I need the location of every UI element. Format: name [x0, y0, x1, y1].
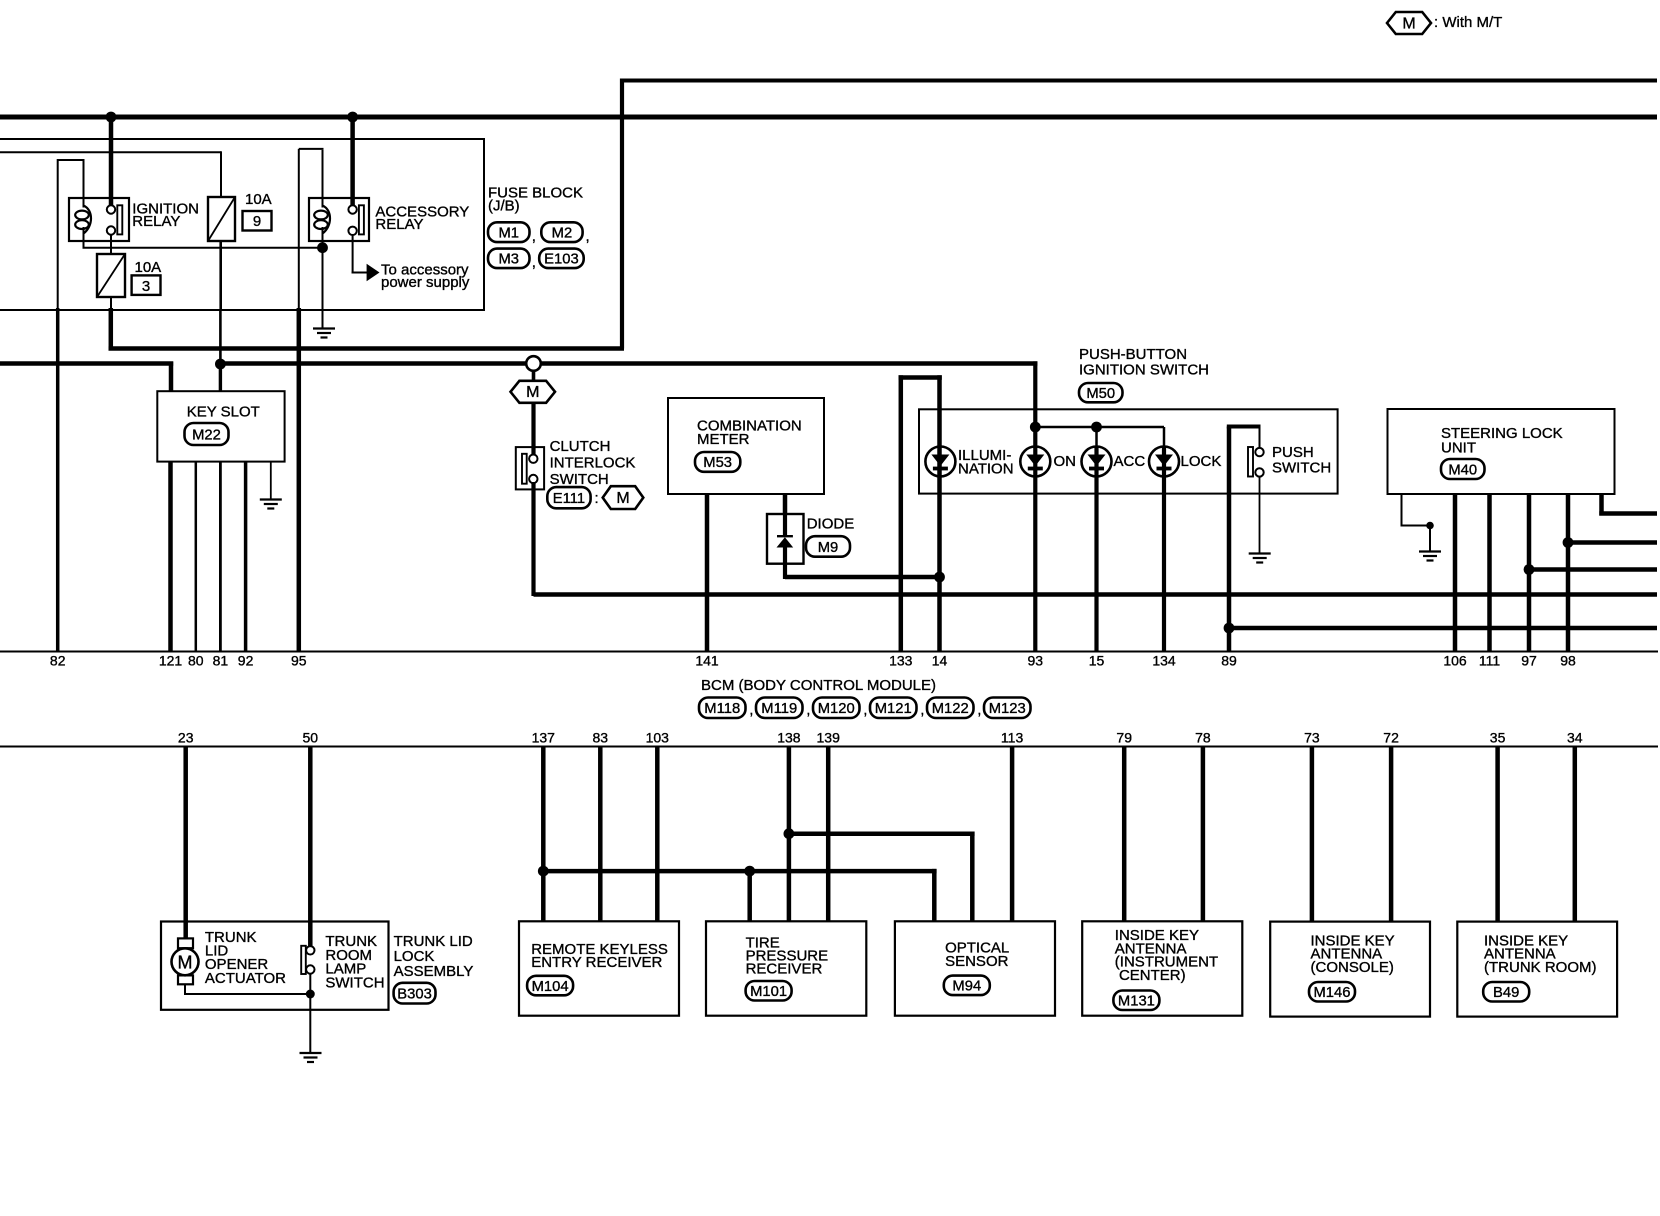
svg-text:M101: M101	[750, 984, 787, 1000]
svg-text:M104: M104	[532, 979, 569, 995]
svg-text:93: 93	[1028, 653, 1044, 669]
svg-text:78: 78	[1195, 730, 1211, 746]
svg-text:,: ,	[977, 702, 981, 719]
svg-text:BCM (BODY CONTROL MODULE): BCM (BODY CONTROL MODULE)	[701, 677, 936, 694]
svg-text:E103: E103	[544, 252, 579, 268]
svg-text:,: ,	[532, 254, 536, 271]
svg-text:113: 113	[1001, 730, 1024, 746]
svg-text:50: 50	[303, 730, 319, 746]
svg-text:15: 15	[1089, 653, 1105, 669]
svg-text:83: 83	[593, 730, 609, 746]
svg-text:141: 141	[695, 653, 719, 669]
svg-text:14: 14	[932, 653, 948, 669]
svg-text:ON: ON	[1054, 453, 1077, 470]
svg-text:: With M/T: : With M/T	[1434, 14, 1502, 31]
svg-text:9: 9	[253, 213, 261, 230]
svg-text:M3: M3	[498, 252, 519, 268]
svg-text:SWITCH: SWITCH	[1272, 459, 1331, 476]
svg-text:KEY SLOT: KEY SLOT	[187, 404, 260, 421]
svg-text:RELAY: RELAY	[132, 213, 180, 230]
svg-text:98: 98	[1560, 653, 1576, 669]
svg-text:(TRUNK ROOM): (TRUNK ROOM)	[1484, 959, 1597, 976]
svg-text:RECEIVER: RECEIVER	[746, 961, 823, 978]
svg-text::: :	[595, 490, 599, 507]
svg-text:,: ,	[586, 228, 590, 245]
svg-text:121: 121	[159, 653, 183, 669]
svg-text:SENSOR: SENSOR	[945, 953, 1009, 970]
svg-text:95: 95	[291, 653, 307, 669]
svg-text:81: 81	[213, 653, 229, 669]
svg-text:103: 103	[646, 730, 670, 746]
svg-text:89: 89	[1221, 653, 1237, 669]
svg-text:138: 138	[777, 730, 801, 746]
svg-text:CLUTCH: CLUTCH	[550, 438, 611, 455]
svg-text:RELAY: RELAY	[375, 216, 423, 233]
svg-text:M50: M50	[1086, 386, 1115, 402]
svg-text:137: 137	[532, 730, 556, 746]
svg-text:M: M	[526, 384, 539, 401]
svg-text:METER: METER	[697, 431, 750, 448]
svg-text:,: ,	[532, 228, 536, 245]
svg-text:72: 72	[1383, 730, 1399, 746]
svg-text:M: M	[616, 490, 629, 507]
svg-text:B49: B49	[1493, 985, 1519, 1001]
svg-text:10A: 10A	[135, 259, 162, 276]
svg-text:80: 80	[188, 653, 204, 669]
svg-text:CENTER): CENTER)	[1115, 967, 1186, 984]
svg-text:power supply: power supply	[381, 274, 470, 291]
svg-text:M: M	[178, 952, 193, 972]
svg-text:M2: M2	[552, 226, 573, 242]
svg-text:ACC: ACC	[1114, 453, 1146, 470]
svg-text:UNIT: UNIT	[1441, 439, 1476, 456]
svg-text:E111: E111	[553, 491, 585, 507]
svg-text:ACTUATOR: ACTUATOR	[205, 970, 286, 987]
svg-text:M40: M40	[1448, 462, 1477, 478]
svg-text:111: 111	[1479, 653, 1500, 669]
svg-text:(CONSOLE): (CONSOLE)	[1311, 959, 1394, 976]
svg-text:35: 35	[1490, 730, 1506, 746]
svg-text:M118: M118	[704, 701, 740, 717]
svg-text:(J/B): (J/B)	[488, 198, 520, 215]
svg-text:M1: M1	[498, 226, 519, 242]
svg-text:M119: M119	[761, 701, 797, 717]
svg-text:3: 3	[142, 278, 150, 295]
svg-text:M94: M94	[952, 979, 981, 995]
svg-text:M22: M22	[192, 427, 221, 443]
svg-text:34: 34	[1567, 730, 1583, 746]
svg-text:PUSH: PUSH	[1272, 444, 1314, 461]
svg-text:10A: 10A	[245, 191, 272, 208]
svg-text:73: 73	[1304, 730, 1320, 746]
svg-text:,: ,	[806, 702, 810, 719]
svg-text:139: 139	[817, 730, 841, 746]
svg-text:SWITCH: SWITCH	[550, 471, 609, 488]
svg-text:M131: M131	[1118, 994, 1155, 1010]
svg-text:,: ,	[863, 702, 867, 719]
svg-text:PUSH-BUTTON: PUSH-BUTTON	[1079, 346, 1187, 363]
svg-text:INTERLOCK: INTERLOCK	[550, 454, 636, 471]
svg-text:79: 79	[1116, 730, 1132, 746]
svg-text:97: 97	[1521, 653, 1537, 669]
svg-text:M122: M122	[932, 701, 969, 717]
svg-text:82: 82	[50, 653, 66, 669]
svg-text:M123: M123	[989, 701, 1026, 717]
svg-text:DIODE: DIODE	[807, 516, 855, 533]
svg-text:,: ,	[749, 702, 753, 719]
svg-text:134: 134	[1152, 653, 1176, 669]
svg-text:IGNITION SWITCH: IGNITION SWITCH	[1079, 361, 1209, 378]
svg-text:92: 92	[238, 653, 254, 669]
svg-text:LOCK: LOCK	[1181, 453, 1222, 470]
svg-text:M: M	[1402, 15, 1415, 32]
svg-text:NATION: NATION	[958, 460, 1014, 477]
svg-text:ASSEMBLY: ASSEMBLY	[394, 963, 474, 980]
svg-text:M120: M120	[818, 701, 855, 717]
svg-text:23: 23	[178, 730, 194, 746]
svg-text:B303: B303	[397, 986, 432, 1002]
svg-text:ENTRY RECEIVER: ENTRY RECEIVER	[531, 954, 662, 971]
svg-text:SWITCH: SWITCH	[325, 974, 384, 991]
svg-text:M53: M53	[703, 455, 732, 471]
svg-text:M9: M9	[818, 540, 839, 556]
svg-text:133: 133	[889, 653, 913, 669]
svg-text:M121: M121	[875, 701, 912, 717]
svg-text:,: ,	[920, 702, 924, 719]
svg-text:106: 106	[1443, 653, 1467, 669]
svg-text:M146: M146	[1313, 985, 1350, 1001]
